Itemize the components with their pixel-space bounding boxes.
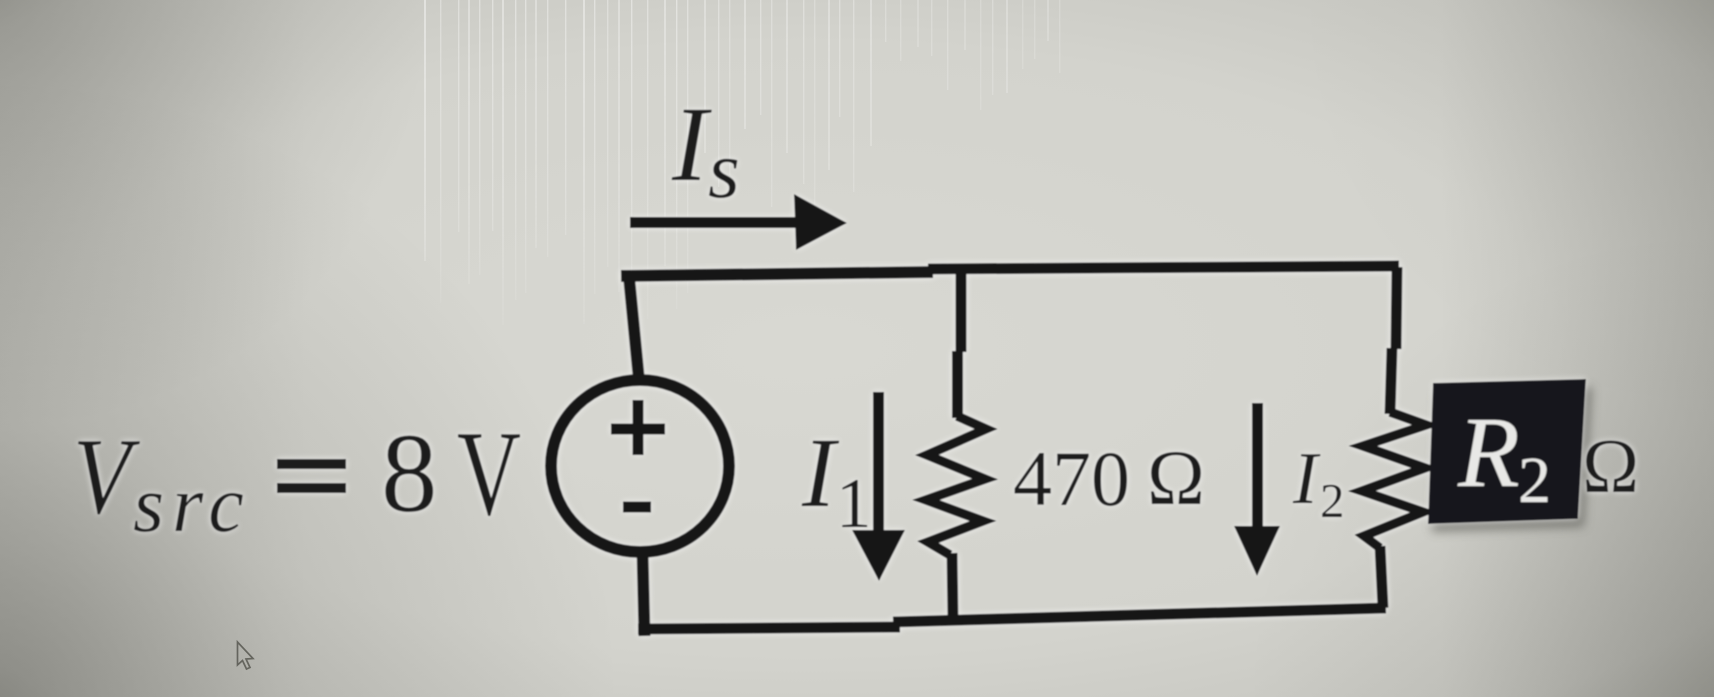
svg-text:s: s	[708, 124, 740, 215]
svg-text:I: I	[801, 417, 840, 528]
resistor R1 top lead	[958, 270, 962, 418]
wire top right segment	[928, 266, 1399, 269]
minus sign	[623, 502, 651, 513]
wire bottom right segment	[893, 608, 1386, 622]
wire source top lead	[629, 272, 640, 380]
svg-text:2: 2	[1518, 444, 1551, 517]
svg-text:2: 2	[1320, 473, 1345, 528]
svg-text:Ω: Ω	[1147, 434, 1205, 521]
svg-text:470: 470	[1013, 435, 1130, 522]
svg-text:I: I	[1292, 438, 1321, 520]
svg-text:I: I	[671, 86, 712, 204]
plus sign	[611, 400, 665, 455]
current arrow I1	[873, 392, 884, 532]
R2 box shadow	[1432, 387, 1592, 532]
svg-text:V: V	[73, 417, 141, 538]
current arrow Is	[630, 217, 800, 228]
svg-text:src: src	[133, 461, 252, 549]
R2 highlight box	[1428, 379, 1586, 524]
wire bottom left segment	[638, 627, 900, 629]
svg-text:R: R	[1457, 396, 1520, 508]
resistor R2 zigzag	[1362, 412, 1426, 548]
svg-text:V: V	[457, 406, 521, 541]
resistor R1 zigzag 470 ohm	[926, 416, 986, 555]
resistor R2 bottom lead	[1380, 546, 1383, 608]
svg-text:Ω: Ω	[1582, 423, 1639, 509]
current arrow I2	[1252, 403, 1263, 528]
screen banding streaks	[424, 0, 1060, 325]
wire source bottom lead	[643, 552, 645, 636]
mouse cursor	[238, 642, 254, 669]
resistor R1 bottom lead	[952, 553, 953, 620]
wire top left segment	[621, 272, 933, 276]
svg-text:8: 8	[381, 411, 438, 536]
voltage source U1 circle	[551, 380, 729, 552]
resistor R2 top lead	[1390, 267, 1397, 414]
